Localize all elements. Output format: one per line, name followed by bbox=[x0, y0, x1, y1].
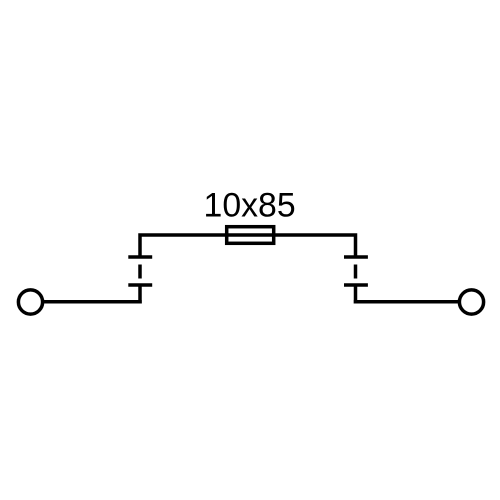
wire right horizontal bbox=[354, 300, 460, 304]
fuse clip contact lower left bbox=[128, 283, 152, 287]
wire left lower vertical bbox=[138, 286, 142, 303]
fuse link dash left bbox=[138, 265, 142, 279]
fuse link dash right bbox=[354, 265, 358, 279]
fuse clip contact lower right bbox=[344, 283, 368, 287]
terminal circle right bbox=[459, 290, 483, 314]
fuse clip contact upper right bbox=[344, 255, 368, 259]
wire left horizontal bbox=[44, 300, 142, 304]
wire top bridge bbox=[140, 235, 356, 257]
terminal circle left bbox=[18, 290, 42, 314]
wire right lower vertical bbox=[354, 286, 358, 303]
fuse F1 body bbox=[227, 227, 274, 244]
svg-text:10x85: 10x85 bbox=[204, 187, 296, 225]
fuse clip contact upper left bbox=[128, 255, 152, 259]
